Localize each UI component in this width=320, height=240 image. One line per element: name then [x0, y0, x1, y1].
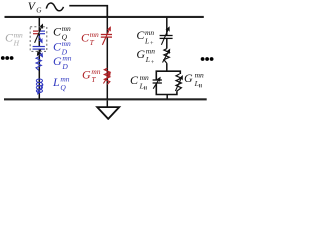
svg-text:H: H	[13, 39, 20, 48]
svg-text:G: G	[184, 71, 193, 85]
svg-text:G: G	[36, 7, 42, 15]
svg-text:T: T	[91, 75, 96, 84]
svg-text:L: L	[139, 81, 144, 90]
svg-text:L: L	[52, 75, 60, 89]
svg-text:D: D	[61, 62, 68, 71]
svg-text:Q: Q	[60, 83, 66, 92]
svg-text:L: L	[194, 79, 199, 88]
svg-text:C: C	[130, 73, 139, 87]
svg-text:G: G	[136, 47, 145, 61]
svg-text:G: G	[53, 54, 62, 68]
svg-text:+: +	[150, 59, 154, 66]
svg-text:L: L	[145, 55, 150, 64]
svg-text:T: T	[90, 38, 95, 47]
svg-text:G: G	[82, 67, 91, 81]
svg-text:L: L	[144, 36, 149, 45]
